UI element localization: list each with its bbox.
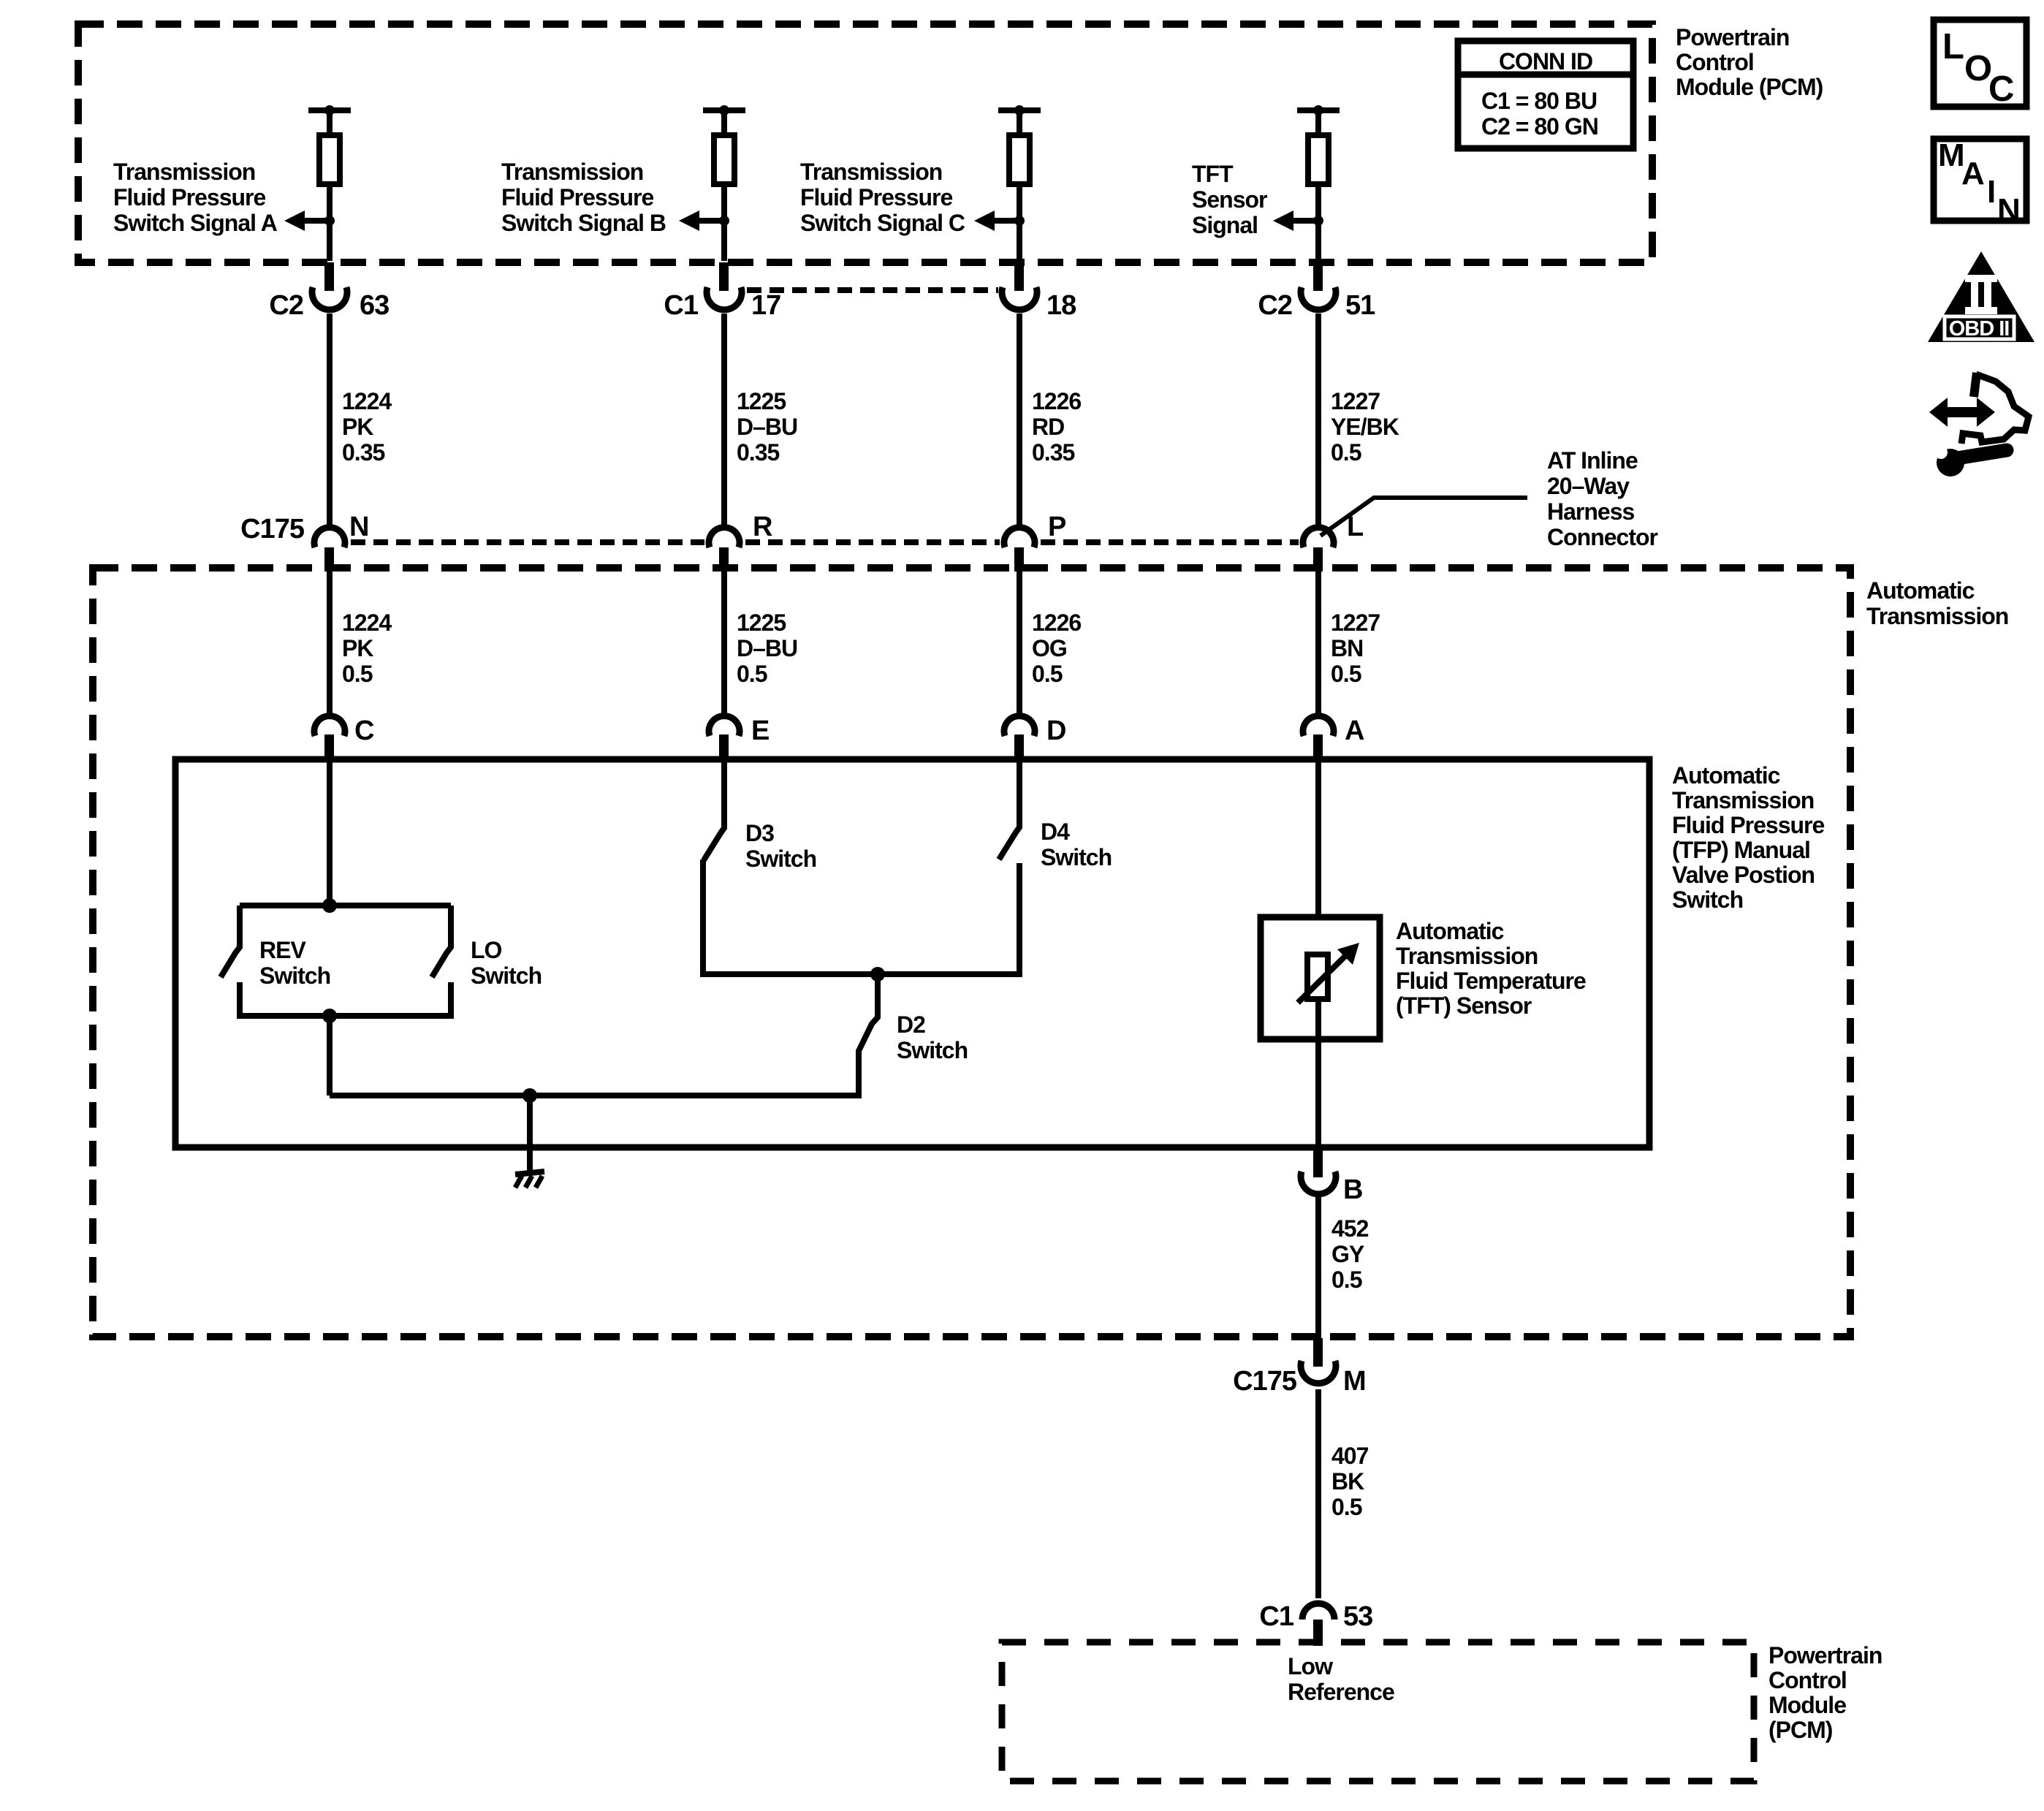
CONN ID box — [1458, 41, 1633, 148]
svg-text:(TFP) Manual: (TFP) Manual — [1672, 837, 1810, 863]
Automatic Transmission dashed box — [93, 568, 1850, 1337]
wire 452 GY 0.5 — [1315, 1197, 1321, 1338]
svg-text:GY: GY — [1331, 1241, 1364, 1267]
svg-text:1225: 1225 — [737, 610, 786, 636]
svg-text:1227: 1227 — [1331, 610, 1380, 636]
connector C175 pin M — [1233, 1338, 1366, 1397]
PCM bottom dashed box — [1002, 1642, 1754, 1781]
svg-text:N: N — [349, 512, 368, 542]
svg-text:Transmission: Transmission — [501, 159, 643, 185]
svg-text:C2 = 80 GN: C2 = 80 GN — [1481, 113, 1598, 140]
svg-text:0.5: 0.5 — [1331, 661, 1361, 687]
svg-text:0.5: 0.5 — [1032, 661, 1063, 687]
wire 1226 OG 0.5 — [1017, 572, 1022, 714]
LO switch branch — [432, 905, 451, 977]
wire 1224 PK 0.35 — [327, 314, 333, 527]
svg-text:0.5: 0.5 — [1331, 1494, 1362, 1520]
wire 1227 BN 0.5 — [1315, 572, 1321, 714]
svg-text:D4: D4 — [1041, 819, 1070, 845]
wire 1224 PK 0.5 — [327, 572, 333, 714]
svg-text:RD: RD — [1032, 414, 1064, 440]
svg-text:Low: Low — [1288, 1653, 1333, 1679]
svg-text:17: 17 — [751, 290, 780, 321]
wire W1 into REV/LO — [327, 759, 333, 906]
wire — [327, 184, 333, 261]
svg-text:M: M — [1343, 1366, 1366, 1397]
connector C1 pin 17 — [664, 262, 780, 321]
node top bar W2 — [703, 107, 745, 113]
connector C1 pin 53 — [1259, 1601, 1372, 1646]
svg-text:0.5: 0.5 — [1331, 439, 1361, 466]
svg-text:OBD II: OBD II — [1949, 317, 2010, 341]
connector C175 pin L — [1303, 512, 1364, 572]
svg-text:Fluid Pressure: Fluid Pressure — [113, 184, 266, 210]
wire — [1315, 184, 1321, 261]
svg-text:53: 53 — [1343, 1601, 1372, 1632]
icon OBD II triangle — [1928, 251, 2034, 342]
svg-text:1225: 1225 — [737, 388, 786, 414]
REV/LO parallel sub-circuit top rail — [240, 903, 451, 908]
label: TFP switch box — [1672, 762, 1825, 913]
dotted connector line C175 N-R-P-L — [351, 539, 704, 545]
svg-text:A: A — [1961, 156, 1985, 191]
svg-text:R: R — [753, 512, 772, 542]
label: Low Reference — [1288, 1653, 1394, 1705]
svg-text:Switch: Switch — [745, 846, 816, 872]
D2 switch — [859, 974, 878, 1098]
svg-text:I: I — [1987, 174, 1996, 210]
wire — [1017, 184, 1022, 261]
svg-text:A: A — [1345, 715, 1364, 746]
svg-text:Harness: Harness — [1547, 498, 1635, 525]
svg-text:18: 18 — [1046, 290, 1076, 321]
svg-text:0.35: 0.35 — [342, 439, 384, 466]
connector pin E — [709, 715, 769, 761]
svg-text:C2: C2 — [269, 290, 303, 321]
connector C1 pin 18 — [1002, 262, 1076, 321]
D4 switch — [999, 759, 1019, 859]
svg-text:Automatic: Automatic — [1866, 577, 1975, 604]
svg-text:Reference: Reference — [1288, 1679, 1394, 1705]
svg-text:Automatic: Automatic — [1672, 762, 1780, 789]
label: Transmission Fluid Pressure Switch Signal A — [113, 159, 278, 236]
svg-text:Module (PCM): Module (PCM) — [1676, 74, 1823, 100]
svg-text:0.35: 0.35 — [1032, 439, 1074, 466]
node junction top — [322, 898, 337, 913]
svg-text:C175: C175 — [240, 514, 305, 544]
svg-text:20–Way: 20–Way — [1547, 473, 1630, 499]
svg-text:E: E — [751, 715, 769, 746]
resistor R4 (PCM pull-up) — [1308, 135, 1329, 184]
svg-text:Powertrain: Powertrain — [1676, 24, 1789, 50]
ground stem wire — [527, 1096, 533, 1174]
svg-text:1224: 1224 — [342, 388, 392, 414]
svg-text:LO: LO — [471, 937, 502, 963]
svg-text:(PCM): (PCM) — [1768, 1717, 1833, 1743]
svg-text:Switch: Switch — [1041, 844, 1112, 870]
TFT sensor U1 — [1261, 917, 1380, 1039]
label: Transmission Fluid Pressure Switch Signal B — [501, 159, 666, 236]
svg-text:REV: REV — [259, 937, 306, 963]
svg-text:Module: Module — [1768, 1692, 1846, 1718]
svg-text:AT Inline: AT Inline — [1547, 447, 1638, 474]
svg-text:B: B — [1343, 1174, 1362, 1205]
PCM top dashed box — [78, 24, 1652, 262]
connector C175 pin N — [240, 512, 368, 572]
svg-text:D3: D3 — [745, 820, 774, 846]
node top bar W1 — [308, 107, 351, 113]
svg-text:Transmission: Transmission — [1396, 943, 1538, 969]
label: Automatic Transmission — [1866, 577, 2008, 629]
svg-text:C: C — [354, 715, 374, 746]
svg-text:Signal: Signal — [1192, 212, 1258, 238]
svg-text:C: C — [1988, 69, 2014, 109]
svg-text:452: 452 — [1331, 1215, 1369, 1242]
signal arrow TFT — [1285, 218, 1318, 224]
connector C175 pin R — [709, 512, 772, 572]
svg-text:Control: Control — [1676, 49, 1754, 75]
svg-text:D–BU: D–BU — [737, 635, 797, 661]
svg-text:0.5: 0.5 — [342, 661, 373, 687]
D3 switch — [704, 759, 724, 860]
icon MAIN — [1934, 137, 2026, 228]
signal arrow C — [986, 218, 1019, 224]
wire 1227 YE/BK 0.5 — [1315, 314, 1321, 527]
svg-text:C2: C2 — [1258, 290, 1292, 321]
connector pin B — [1301, 1147, 1362, 1205]
svg-text:C1: C1 — [1259, 1601, 1293, 1632]
svg-text:0.5: 0.5 — [737, 661, 767, 687]
svg-text:Switch: Switch — [897, 1037, 968, 1063]
dotted connector line 17-18 — [747, 287, 998, 293]
svg-text:0.35: 0.35 — [737, 439, 779, 466]
ground — [515, 1172, 544, 1188]
wire 407 BK 0.5 — [1315, 1389, 1321, 1598]
svg-text:0.5: 0.5 — [1331, 1267, 1362, 1293]
svg-text:1224: 1224 — [342, 610, 392, 636]
svg-text:P: P — [1048, 512, 1066, 542]
wire 1226 RD 0.35 — [1017, 314, 1022, 527]
signal arrow A — [296, 218, 330, 224]
node D2 junction — [870, 967, 885, 982]
wire W4 into TFT sensor — [1315, 759, 1321, 957]
label REV Switch — [259, 937, 330, 989]
svg-text:Switch: Switch — [471, 963, 542, 989]
svg-text:1226: 1226 — [1032, 610, 1081, 636]
svg-text:CONN ID: CONN ID — [1499, 48, 1592, 75]
svg-text:C1 = 80 BU: C1 = 80 BU — [1481, 88, 1597, 114]
ground rail wire — [330, 1093, 859, 1098]
svg-text:BK: BK — [1331, 1468, 1364, 1495]
svg-text:Switch: Switch — [1672, 886, 1743, 913]
svg-text:PK: PK — [342, 635, 373, 661]
label: Automatic Transmission Fluid Temperature (TFT) Sensor — [1396, 918, 1586, 1019]
svg-text:C175: C175 — [1233, 1366, 1297, 1397]
svg-text:Valve Postion: Valve Postion — [1672, 862, 1815, 888]
REV switch branch — [221, 905, 240, 977]
svg-text:(TFT) Sensor: (TFT) Sensor — [1396, 992, 1532, 1019]
connector pin A — [1303, 715, 1364, 761]
connector pin C — [314, 715, 374, 761]
node junction bottom — [322, 1009, 337, 1023]
node top bar W3 — [998, 107, 1041, 113]
svg-text:D–BU: D–BU — [737, 414, 797, 440]
wire 1225 D-BU 0.5 — [721, 572, 727, 714]
resistor R3 (PCM pull-up) — [1009, 135, 1030, 184]
svg-text:51: 51 — [1345, 290, 1375, 321]
icon data link connector (arrow + wrench) — [1929, 373, 2029, 477]
svg-text:1226: 1226 — [1032, 388, 1081, 414]
svg-text:Fluid Pressure: Fluid Pressure — [501, 184, 654, 210]
svg-text:Switch Signal A: Switch Signal A — [113, 210, 278, 236]
wire below TFT sensor — [1315, 999, 1321, 1147]
label: Transmission Fluid Pressure Switch Signal C — [800, 159, 965, 236]
svg-text:Control: Control — [1768, 1667, 1847, 1693]
TFP manual valve position switch box — [175, 759, 1649, 1147]
svg-text:Fluid Pressure: Fluid Pressure — [1672, 812, 1825, 838]
svg-text:TFT: TFT — [1192, 161, 1234, 187]
svg-text:Automatic: Automatic — [1396, 918, 1504, 944]
svg-text:Sensor: Sensor — [1192, 186, 1267, 213]
AT Inline 20-Way Harness Connector callout — [1321, 447, 1658, 550]
svg-text:63: 63 — [360, 290, 389, 321]
svg-text:Fluid Temperature: Fluid Temperature — [1396, 968, 1586, 994]
wire — [721, 110, 727, 136]
label: TFT Sensor Signal — [1192, 161, 1267, 238]
node ground tap — [523, 1088, 537, 1103]
D3/D4 bottom rail — [703, 971, 1019, 977]
resistor R1 (PCM pull-up) — [319, 135, 340, 184]
wire down from REV/LO — [327, 1016, 333, 1096]
svg-text:Fluid Pressure: Fluid Pressure — [800, 184, 953, 210]
svg-text:D2: D2 — [897, 1011, 925, 1038]
svg-text:OG: OG — [1032, 635, 1067, 661]
svg-text:Transmission: Transmission — [1866, 603, 2008, 629]
wire — [721, 184, 727, 261]
svg-text:Switch: Switch — [259, 963, 330, 989]
wire — [327, 110, 333, 136]
wire — [1017, 110, 1022, 136]
svg-text:C1: C1 — [664, 290, 698, 321]
icon LOC — [1934, 20, 2026, 109]
resistor R2 (PCM pull-up) — [714, 135, 734, 184]
svg-text:D: D — [1046, 715, 1065, 746]
svg-text:Connector: Connector — [1547, 524, 1658, 550]
svg-text:Switch Signal B: Switch Signal B — [501, 210, 666, 236]
svg-text:L: L — [1942, 27, 1964, 67]
connector C2 pin 63 — [269, 262, 389, 321]
svg-text:N: N — [1997, 192, 2021, 228]
REV/LO bottom rail — [240, 1013, 451, 1019]
svg-text:Transmission: Transmission — [800, 159, 942, 185]
label LO Switch — [471, 937, 542, 989]
signal arrow B — [691, 218, 724, 224]
svg-text:407: 407 — [1331, 1443, 1369, 1469]
label: Powertrain Control Module (PCM) bottom — [1768, 1642, 1882, 1743]
svg-text:PK: PK — [342, 414, 373, 440]
node top bar W4 — [1297, 107, 1340, 113]
connector pin D — [1004, 715, 1065, 761]
label: Powertrain Control Module (PCM) top — [1676, 24, 1823, 100]
svg-text:L: L — [1347, 512, 1364, 542]
connector C2 pin 51 — [1258, 262, 1375, 321]
wire — [1315, 110, 1321, 136]
svg-text:Transmission: Transmission — [1672, 787, 1814, 813]
svg-text:BN: BN — [1331, 635, 1363, 661]
wire 1225 D-BU 0.35 — [721, 314, 727, 527]
svg-text:Transmission: Transmission — [113, 159, 255, 185]
svg-text:Switch Signal C: Switch Signal C — [800, 210, 965, 236]
svg-text:Powertrain: Powertrain — [1768, 1642, 1882, 1668]
svg-text:YE/BK: YE/BK — [1331, 414, 1399, 440]
connector C175 pin P — [1004, 512, 1066, 572]
svg-text:1227: 1227 — [1331, 388, 1380, 414]
